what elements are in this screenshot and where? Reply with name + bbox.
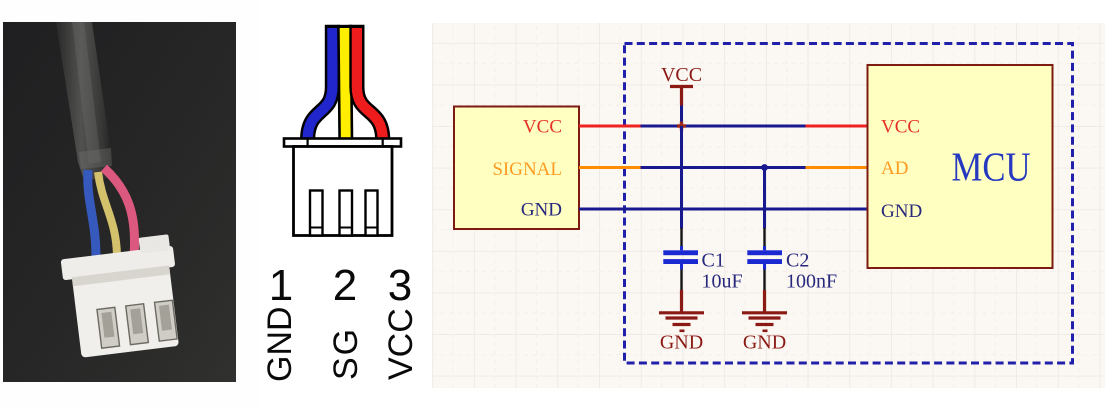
capacitor C2 bottom pin	[763, 264, 766, 270]
svg-text:2: 2	[333, 261, 357, 310]
capacitor C2 plates	[747, 250, 782, 264]
svg-text:VCC: VCC	[382, 308, 420, 380]
MCU box U1	[868, 65, 1053, 268]
connector body outline	[294, 147, 393, 236]
svg-text:GND: GND	[660, 332, 703, 354]
slot 2	[340, 191, 353, 236]
svg-text:SG: SG	[327, 327, 365, 380]
svg-text:100nF: 100nF	[786, 271, 837, 293]
wire red W3	[357, 25, 383, 140]
capacitor C2 branch wire	[763, 168, 766, 229]
sensor box U2	[454, 107, 579, 230]
dashed border box	[625, 44, 1073, 364]
wire SIGNAL navy segment	[641, 166, 806, 169]
slot 3	[366, 191, 378, 236]
ground stub for C1	[680, 290, 683, 312]
svg-text:AD: AD	[881, 158, 908, 179]
schematic grid background	[432, 23, 1105, 388]
ground stub for C2	[763, 290, 766, 312]
svg-text:SIGNAL: SIGNAL	[492, 159, 562, 180]
svg-text:3: 3	[388, 261, 412, 310]
pin slot 3 (photo)	[155, 300, 178, 341]
svg-text:GND: GND	[261, 306, 299, 382]
slot 1	[310, 191, 323, 236]
svg-text:GND: GND	[743, 332, 786, 354]
capacitor C1 top pin	[680, 228, 682, 246]
svg-text:1: 1	[269, 261, 293, 310]
wire yellow (photo)	[98, 172, 117, 258]
photo grain overlay	[3, 22, 236, 382]
svg-text:C2: C2	[786, 250, 809, 272]
junction cross at VCC node	[677, 122, 686, 131]
cable sheen highlight	[72, 22, 101, 164]
svg-text:VCC: VCC	[661, 64, 702, 86]
wire blue (photo)	[88, 170, 96, 256]
wire yellow W2	[345, 25, 346, 140]
capacitor C1 branch wire	[680, 126, 683, 229]
wire GND navy	[579, 208, 868, 211]
svg-text:GND: GND	[881, 201, 922, 222]
svg-text:MCU: MCU	[952, 144, 1031, 190]
connector body (photo)	[59, 234, 185, 359]
flange divider left	[307, 139, 309, 147]
capacitor C1 plates	[663, 250, 698, 264]
power stub navy lower part	[680, 106, 683, 127]
power symbol VCC bar	[670, 85, 693, 88]
cable end ring	[79, 148, 112, 169]
connector flange	[284, 139, 401, 147]
capacitor C2 top pin	[763, 228, 765, 246]
svg-text:VCC: VCC	[881, 117, 920, 138]
cable sheath	[56, 22, 112, 180]
pin slot 1 (photo)	[97, 307, 120, 348]
svg-text:10uF: 10uF	[702, 271, 743, 293]
junction dot on SIGNAL line	[761, 164, 768, 171]
wire VCC navy segment	[641, 125, 806, 128]
wire VCC red segment (MCU side)	[806, 125, 868, 128]
wire blue W1	[308, 25, 333, 140]
svg-text:VCC: VCC	[523, 117, 562, 138]
wire pink (photo)	[104, 168, 135, 256]
wire VCC red segment (sensor side)	[579, 125, 641, 128]
flange divider right	[382, 139, 384, 147]
pin slot 2 (photo)	[126, 304, 149, 345]
photo background	[3, 22, 236, 382]
svg-text:C1: C1	[702, 250, 725, 272]
power symbol VCC stub	[680, 87, 683, 106]
wire SIGNAL orange segment (MCU side)	[806, 166, 868, 169]
ground symbol GND (C1)	[659, 313, 704, 331]
ground symbol GND (C2)	[742, 313, 787, 331]
svg-text:GND: GND	[521, 200, 562, 221]
capacitor C1 bottom pin	[680, 264, 683, 270]
wire SIGNAL orange segment (sensor side)	[579, 166, 641, 169]
